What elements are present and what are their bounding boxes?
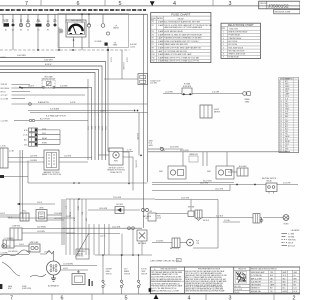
svg-text:HORN TAN RED RELAY: HORN TAN RED RELAY — [164, 30, 183, 33]
svg-text:6: 6 — [61, 295, 64, 300]
wire drop to connector row — [2, 14, 4, 23]
wire horn btn right — [192, 93, 243, 95]
svg-text:6-16 GRN(B): 6-16 GRN(B) — [37, 227, 46, 229]
fuse chart row F12 — [151, 58, 211, 60]
wire table row line — [279, 79, 299, 81]
connector terminal — [12, 24, 15, 27]
relay feed box — [237, 168, 248, 176]
wire bundle lowest vertical — [87, 79, 89, 160]
fuse chart row F11 — [151, 55, 211, 57]
title block notes box divider — [184, 267, 186, 294]
svg-text:C-16 GRN: C-16 GRN — [1, 253, 8, 255]
svg-text:FL: FL — [12, 19, 14, 21]
title table column divider — [268, 270, 270, 293]
fuse chart column divider — [163, 16, 165, 63]
oil pressure sender symbol — [101, 24, 105, 28]
svg-text:FUEL: FUEL — [283, 285, 287, 287]
svg-text:LWF BODY OUTPUT: LWF BODY OUTPUT — [108, 167, 123, 169]
trunk 27-12 — [62, 227, 142, 229]
zone tick top — [104, 0, 106, 6]
bottom left dark switch marks — [89, 279, 90, 286]
trunk wire corner 3 — [0, 70, 99, 161]
wire table row line — [279, 127, 299, 129]
notes corner marker — [149, 288, 152, 292]
svg-text:SOME: SOME — [4, 21, 9, 23]
bus junction dot — [88, 13, 90, 15]
svg-text:4-16 GRN (W): 4-16 GRN (W) — [8, 251, 18, 253]
panel switch 2 — [121, 255, 123, 280]
fuse F1 symbol — [36, 24, 42, 27]
junction dot — [236, 184, 238, 186]
alternator wire zigzag — [40, 251, 54, 262]
svg-text:34-12 GRN: 34-12 GRN — [200, 183, 209, 185]
wire table row line — [279, 84, 299, 86]
vertical riser right pair — [147, 14, 149, 182]
svg-text:OIL: OIL — [114, 43, 117, 45]
junction dot — [19, 86, 21, 88]
svg-text:7-16 W: 7-16 W — [110, 57, 112, 63]
title block outline — [150, 267, 300, 294]
wire table row line — [279, 104, 299, 106]
svg-text:DOME: DOME — [22, 286, 26, 288]
wire left stub 218 — [8, 217, 75, 219]
dome light box — [29, 244, 40, 252]
relay diode chart row 6 — [221, 45, 261, 47]
key switch lower wire — [223, 221, 240, 223]
svg-text:27-16 ORN: 27-16 ORN — [235, 289, 242, 291]
wire x139 drop — [138, 113, 140, 156]
restrictor terminal — [43, 86, 45, 88]
svg-text:4-16(B) S/LOW: 4-16(B) S/LOW — [150, 80, 161, 82]
svg-text:34-12 GRN: 34-12 GRN — [203, 181, 212, 183]
ammeter shunt symbol — [29, 103, 32, 106]
svg-text:10-16 GRN: 10-16 GRN — [99, 208, 108, 210]
lpg fuel lock box — [148, 213, 156, 221]
key switch cluster box 2 — [195, 210, 202, 218]
title table row line — [250, 288, 300, 290]
wire table row line — [279, 122, 299, 124]
relay diode chart header row — [221, 26, 261, 28]
fuel sender unit — [109, 148, 123, 165]
svg-text:6: 6 — [77, 1, 80, 7]
wire dome — [14, 245, 29, 247]
svg-text:1-16 W: 1-16 W — [126, 57, 128, 63]
svg-text:DOME: DOME — [4, 19, 9, 21]
junction dot — [132, 254, 134, 256]
wire gauge to bus — [73, 37, 75, 48]
title table column divider — [292, 270, 294, 293]
wire comp upper — [22, 228, 75, 230]
wire fls mid — [180, 242, 187, 244]
drawing number box — [259, 1, 300, 9]
wire table row line — [279, 114, 299, 116]
svg-text:LEGEND: LEGEND — [291, 230, 300, 232]
gauge pair 2 sender — [218, 170, 223, 175]
svg-text:8-16: 8-16 — [230, 170, 233, 172]
harness squiggle wires — [0, 250, 30, 257]
svg-text:TEMP: TEMP — [141, 271, 145, 273]
svg-text:HEADLIGHTS OPTIC 2 REAR 34-12: HEADLIGHTS OPTIC 2 REAR 34-12 OPT YEL — [164, 60, 199, 63]
relay diode chart row 2 — [221, 32, 261, 34]
svg-text:34-12: 34-12 — [283, 275, 287, 277]
panel switch 3 — [138, 255, 140, 280]
fuse chart row F3 — [151, 29, 211, 31]
panel lamp symbol — [59, 29, 63, 33]
wire table row line — [279, 112, 299, 114]
wires alternator right — [61, 265, 98, 267]
spare switch info box — [76, 249, 89, 259]
revision zone box — [274, 10, 300, 14]
trunk 1-12 — [66, 233, 120, 235]
title table column divider — [280, 270, 282, 293]
wire table row line — [279, 147, 299, 149]
bottom connector trunk — [95, 254, 152, 256]
svg-text:16-16 GRN: 16-16 GRN — [54, 218, 62, 220]
legend line sample 2 — [282, 236, 288, 238]
proprietary notice box divider — [233, 267, 235, 294]
wire oil send corner to connector — [121, 62, 123, 80]
svg-text:3-16 BRN: 3-16 BRN — [30, 160, 37, 162]
svg-text:D-41 BRN: D-41 BRN — [17, 55, 26, 57]
svg-text:DWG NO: DWG NO — [260, 3, 268, 5]
svg-text:OPT OPT: OPT OPT — [1, 95, 8, 97]
fuse chart header row — [151, 15, 211, 17]
svg-text:2: 2 — [293, 295, 296, 300]
wire from neutral switch right — [277, 184, 298, 186]
svg-text:27-16 GRN: 27-16 GRN — [181, 197, 190, 199]
spare gauge area top wires — [148, 148, 160, 150]
svg-text:B-18: B-18 — [24, 130, 28, 132]
relay diode chart table — [221, 23, 261, 58]
gauge bottom junction dot — [73, 39, 75, 41]
oil send junction blob — [107, 49, 109, 51]
svg-text:47-16 GRN: 47-16 GRN — [165, 91, 173, 93]
bus junction dot — [81, 13, 83, 15]
svg-text:HORN: HORN — [100, 126, 102, 131]
wire table row line — [279, 142, 299, 144]
svg-text:SWITCH: SWITCH — [141, 274, 147, 276]
wire table row line — [279, 94, 299, 96]
svg-text:27-12 GRN: 27-12 GRN — [112, 226, 121, 228]
svg-text:5-16 GRN: 5-16 GRN — [150, 83, 157, 85]
svg-text:57-12 BL: 57-12 BL — [224, 220, 230, 222]
svg-text:FUSE: FUSE — [151, 18, 155, 20]
fuse chart table — [151, 13, 211, 63]
wire table row line — [279, 82, 299, 84]
svg-text:WHT BLK: WHT BLK — [77, 256, 83, 258]
comp switch box — [10, 228, 22, 240]
svg-text:E2: E2 — [47, 29, 49, 31]
riser x122 to switch trunk — [121, 234, 123, 256]
vertical riser right pair — [143, 14, 145, 228]
svg-text:C-7 HORN FUEL: C-7 HORN FUEL — [251, 275, 262, 277]
svg-text:27-16 GRN: 27-16 GRN — [54, 213, 62, 215]
relay diode chart row 1 — [221, 29, 261, 31]
svg-text:31-16 BRN: 31-16 BRN — [122, 62, 124, 70]
oil send drop wire — [121, 50, 123, 62]
connector terminal — [47, 24, 50, 27]
svg-text:METER OIL SEND ST GAGE WHT HOR: METER OIL SEND ST GAGE WHT HORN RELAY — [164, 33, 203, 36]
gauge pair 2 outline — [216, 166, 234, 179]
enclosure inner junction — [88, 23, 90, 25]
oil send connector blob — [105, 43, 108, 46]
svg-text:4: 4 — [188, 295, 191, 300]
svg-text:D-41: D-41 — [72, 218, 74, 221]
diagonal harness wire — [76, 233, 90, 257]
junction dot — [78, 198, 80, 200]
junction dot — [73, 182, 75, 184]
svg-text:24-16 BRN: 24-16 BRN — [135, 160, 137, 167]
relay diode chart row 7 — [221, 48, 261, 50]
svg-text:CENTER: CENTER — [106, 269, 113, 271]
connector CN3 — [29, 138, 38, 142]
relay diode chart row 5 — [221, 42, 261, 44]
riser mid — [229, 185, 231, 191]
fuse chart row F2 — [151, 22, 211, 24]
wire to regulator — [78, 270, 80, 274]
key switch cluster box 1 — [188, 211, 194, 217]
svg-text:C4: C4 — [27, 29, 29, 31]
temp sender symbol — [87, 24, 90, 27]
wire relay feed stubs — [228, 171, 237, 173]
connector CN1 — [29, 128, 38, 132]
svg-text:PWR FUEL: PWR FUEL — [288, 239, 296, 241]
svg-text:7: 7 — [25, 1, 28, 7]
fuse chart column divider — [156, 16, 158, 63]
wire riser from connector stack — [59, 130, 61, 144]
svg-text:C-1 BL: C-1 BL — [9, 150, 14, 152]
connector pair 27-12 — [128, 227, 131, 230]
key switch wire upper — [155, 199, 218, 201]
wire level to bundle upper — [47, 214, 62, 216]
svg-text:▲: ▲ — [154, 267, 156, 270]
svg-text:SWITCH: SWITCH — [124, 274, 130, 276]
junction dot — [128, 183, 130, 185]
svg-text:4: 4 — [173, 1, 176, 7]
fuse chart row F5 — [151, 35, 211, 37]
corner marker bottom-left — [0, 284, 2, 289]
title table row line — [250, 285, 300, 287]
svg-text:B-46 WHT: B-46 WHT — [130, 44, 137, 46]
bat gage opt box — [137, 230, 147, 241]
top wire destination micro labels — [0, 9, 146, 11]
svg-text:C-7: C-7 — [64, 206, 66, 209]
svg-text:57-12 W B: 57-12 W B — [283, 183, 290, 185]
revision figure box divider — [249, 267, 251, 294]
fuse chart row F9 — [151, 48, 211, 50]
svg-text:HORN: HORN — [284, 223, 290, 225]
wire table row line — [279, 117, 299, 119]
wire into wiring assy lower — [8, 161, 44, 163]
svg-text:2-16 W: 2-16 W — [19, 244, 24, 246]
svg-text:4W-16 W: 4W-16 W — [203, 220, 210, 222]
svg-text:ST: ST — [27, 19, 29, 21]
wire level to bundle lower — [47, 219, 64, 221]
zone tick bottom — [273, 294, 275, 300]
wire key cluster right corner down — [193, 200, 218, 249]
svg-text:WHT: WHT — [97, 126, 99, 130]
wire table row line — [279, 107, 299, 109]
left small sender circle — [2, 244, 6, 248]
fls connector box — [172, 238, 180, 248]
instrument panel dashed bottom edge — [0, 49, 130, 51]
svg-text:REF: REF — [222, 28, 225, 30]
wire restrictor left — [20, 86, 43, 88]
svg-text:REVISION ZONE: REVISION ZONE — [275, 12, 291, 14]
svg-text:5: 5 — [119, 1, 122, 7]
svg-text:FUEL: FUEL — [114, 161, 118, 163]
svg-text:SWITCH: SWITCH — [106, 274, 112, 276]
wire table row line — [279, 139, 299, 141]
wire diode row — [88, 209, 140, 211]
svg-text:DIO 3635: DIO 3635 — [116, 204, 123, 206]
junction dot — [121, 254, 123, 256]
horn button box — [182, 88, 192, 95]
relay diode chart row 3 — [221, 36, 261, 38]
bundle verticals to switch trunk — [88, 224, 90, 255]
svg-text:METER: METER — [214, 112, 221, 114]
svg-text:FUEL: FUEL — [157, 216, 161, 218]
riser x142 from bat gage box — [141, 241, 143, 255]
svg-text:27-16 GRN: 27-16 GRN — [113, 197, 122, 199]
svg-text:HORN: HORN — [283, 291, 287, 293]
title table row line — [250, 282, 300, 284]
wire table row line — [279, 109, 299, 111]
svg-text:2-16 GRN: 2-16 GRN — [64, 156, 71, 158]
battery gauge opt connector — [142, 209, 145, 212]
svg-text:B-50 W: B-50 W — [45, 64, 52, 66]
revision box lower rows — [234, 283, 250, 285]
wire to fuel sender — [99, 154, 110, 156]
svg-text:4-16 BRN: 4-16 BRN — [136, 133, 138, 140]
relay diode chart row 8 — [221, 51, 261, 53]
svg-text:ORN: ORN — [90, 126, 92, 129]
svg-text:34-16 GRN: 34-16 GRN — [170, 147, 179, 149]
riser x28 — [27, 161, 29, 184]
legend line sample 4 — [282, 242, 288, 244]
svg-text:BRN: BRN — [294, 278, 297, 280]
regulator small box — [72, 274, 85, 285]
connector CN2 — [29, 133, 38, 137]
connector stack wires — [30, 112, 148, 114]
vertical pair x62 — [61, 199, 63, 245]
wire table row line — [279, 119, 299, 121]
svg-text:SPARE OPTION LAMP FUEL LAMP: SPARE OPTION LAMP FUEL LAMP — [164, 53, 192, 56]
svg-text:HEADLIGHTS OPTIC 1 REAR SW 27-: HEADLIGHTS OPTIC 1 REAR SW 27-16 TAN — [164, 56, 199, 59]
wire continuation below connectors — [12, 27, 14, 50]
gauge pair 1 outline — [168, 166, 186, 179]
key switch connector diamond — [196, 218, 201, 221]
svg-text:PROPRIETARY NOTICE: PROPRIETARY NOTICE — [198, 267, 221, 270]
relay diode chart row 4 — [221, 39, 261, 41]
svg-text:B1: B1 — [5, 29, 7, 31]
svg-text:D-14 GRN: D-14 GRN — [212, 91, 219, 93]
svg-text:PNL: PNL — [53, 19, 56, 21]
wire fuel lock to key cluster — [156, 213, 188, 215]
svg-text:GRN DOME: GRN DOME — [30, 242, 39, 244]
wire table row line — [279, 97, 299, 99]
svg-text:27-16: 27-16 — [42, 128, 46, 130]
wire table row line — [279, 144, 299, 146]
vertical riser pair left — [19, 150, 21, 215]
wire left stub b2 — [0, 214, 20, 216]
zone tick bottom — [205, 294, 207, 300]
svg-text:16-18 W: 16-18 W — [28, 85, 34, 87]
svg-text:B-10 OPTION: B-10 OPTION — [40, 119, 50, 121]
legend line sample 5 — [282, 245, 288, 247]
wire to horn — [263, 217, 283, 219]
wire table row line — [279, 89, 299, 91]
wire fls — [152, 242, 172, 244]
relay diode chart column divider — [226, 27, 228, 59]
svg-text:BLK: BLK — [294, 285, 297, 287]
svg-text:5 AMP: 5 AMP — [158, 50, 164, 53]
zone tick bottom — [91, 294, 93, 300]
svg-text:LP: LP — [115, 25, 117, 27]
svg-text:D-40 W: D-40 W — [70, 102, 76, 104]
alternator circle — [47, 261, 61, 275]
junction dot — [72, 49, 74, 51]
svg-text:FLS: FLS — [196, 241, 199, 243]
wire table row line — [279, 87, 299, 89]
neutral trunk wire — [152, 184, 266, 186]
spare sender symbol — [243, 92, 247, 96]
svg-text:5 AMP: 5 AMP — [158, 37, 164, 40]
trunk 34-18 — [148, 151, 290, 153]
inline connector housing — [138, 74, 148, 85]
svg-text:ORN: ORN — [270, 272, 273, 274]
svg-text:BLK: BLK — [270, 288, 273, 290]
junction dot — [21, 87, 23, 89]
junction dot — [37, 49, 39, 51]
svg-text:ORN SW: ORN SW — [1, 84, 8, 86]
junction dot — [140, 155, 142, 157]
gauge pair 1 sender — [170, 170, 175, 175]
svg-text:D-41 C-7 YEL BRN ORN RH OPT LH: D-41 C-7 YEL BRN ORN RH OPT LH — [151, 288, 176, 290]
connector plug J1 — [4, 23, 10, 26]
svg-text:27-16 W(GRN): 27-16 W(GRN) — [63, 264, 74, 266]
alternator ground symbol — [51, 275, 56, 281]
connector terminal — [19, 23, 22, 26]
svg-text:PULL: PULL — [23, 211, 27, 213]
svg-text:FUSE: FUSE — [36, 21, 40, 23]
svg-text:C-7 S/W BRN: C-7 S/W BRN — [4, 238, 14, 240]
svg-text:34-12 FUEL PWR B-18 PUR B-18 B: 34-12 FUEL PWR B-18 PUR B-18 B-18 ORN — [151, 277, 181, 279]
svg-text:C-7 BRN: C-7 BRN — [288, 233, 294, 235]
wire table row line — [279, 132, 299, 134]
svg-text:B-18: B-18 — [270, 275, 273, 277]
wire comp lower — [22, 232, 75, 234]
notes section divider — [150, 280, 184, 282]
wire out wiring assy lower — [59, 161, 88, 163]
trunk 199 left — [66, 198, 155, 200]
fls top sender — [187, 239, 194, 246]
svg-text:FUEL: FUEL — [207, 171, 211, 173]
svg-text:17-16 W: 17-16 W — [44, 252, 50, 254]
trunk wire D-40 — [12, 103, 148, 105]
wire pull coil — [0, 216, 20, 218]
wire circuit table right edge — [279, 78, 299, 153]
wire x108 drop — [107, 50, 109, 152]
revision triangle marker top — [150, 1, 155, 6]
wire table row line — [279, 99, 299, 101]
svg-text:3: 3 — [229, 1, 232, 7]
pull coil relay — [20, 213, 29, 221]
title table row line — [250, 276, 300, 278]
revision triangle marker bottom — [154, 294, 159, 299]
svg-text:IGN LH: IGN LH — [288, 242, 293, 244]
svg-text:B3: B3 — [20, 29, 22, 31]
